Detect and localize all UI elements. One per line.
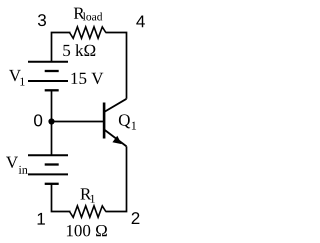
V1 label sub 1 — [20, 78, 24, 86]
transistor Q1 collector diagonal — [104, 99, 126, 112]
Vin label V — [6, 157, 18, 168]
battery Vin plate short — [45, 163, 59, 165]
Rload label sub load — [83, 12, 102, 20]
value 15 V label — [71, 73, 103, 84]
node 0 junction dot — [48, 118, 54, 124]
wire base: node 0 to transistor base bar — [52, 121, 105, 123]
battery Vin plate long — [28, 173, 68, 175]
battery V1 plate short bottom — [45, 89, 59, 91]
battery V1 plate short — [45, 70, 59, 72]
wire resistor to node4 corner, down right rail to collector — [106, 33, 127, 99]
battery Vin plate short bottom — [45, 183, 59, 185]
battery Vin plate long top — [28, 154, 68, 156]
Vin label sub in — [19, 166, 28, 174]
wire top rail node3 to node4 — [52, 33, 71, 62]
Rload label R — [74, 8, 85, 19]
battery V1 plate long — [28, 80, 68, 82]
transistor Q1 base bar — [103, 103, 106, 139]
battery V1 plate long top — [28, 61, 68, 63]
resistor R1 zigzag — [70, 206, 106, 217]
V1 label V — [9, 70, 21, 81]
node 1 label — [38, 213, 45, 225]
value 5 kOhm label — [63, 44, 95, 56]
transistor Q1 emitter diagonal with arrow — [104, 130, 126, 147]
value 100 Ohm label — [67, 225, 107, 236]
wire node1 corner up to Vin bottom — [52, 184, 71, 212]
wire emitter corner down right rail to node 2 — [106, 146, 127, 211]
R1 label sub 1 — [91, 195, 95, 203]
node 3 label — [38, 14, 46, 26]
node 0 label — [34, 114, 42, 126]
node 4 label — [136, 16, 145, 28]
Q1 label Q — [119, 114, 130, 128]
R1 label R — [80, 188, 91, 199]
Q1 label sub 1 — [132, 122, 136, 130]
wire V1 bottom to Vin top through node 0 — [51, 90, 53, 155]
resistor Rload zigzag — [70, 27, 106, 38]
node 2 label — [132, 212, 140, 224]
transistor Q1 emitter arrowhead — [112, 136, 121, 144]
